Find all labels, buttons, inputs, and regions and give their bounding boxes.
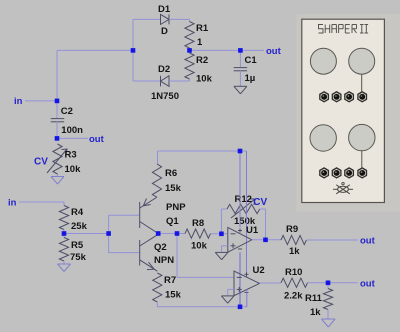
label 2.2k (284, 291, 303, 302)
resistor R3 (variable) (53, 144, 62, 176)
jack row2-3 (345, 168, 354, 178)
net label CV (R3) (34, 157, 48, 168)
knob row2 right (349, 124, 375, 150)
ground below R5 (58, 264, 71, 272)
label R5 (71, 240, 84, 251)
panel backdrop (297, 14, 400, 212)
svg-text:10k: 10k (191, 241, 208, 252)
svg-text:D: D (161, 26, 168, 37)
knob row2 left (310, 125, 336, 151)
node base rail (106, 231, 111, 236)
label 10k (R3) (65, 164, 82, 175)
svg-text:1k: 1k (310, 307, 321, 318)
wire clipper out (190, 49, 265, 51)
label U1 (246, 225, 259, 236)
label PNP (166, 202, 186, 213)
label 1k (R11) (310, 307, 321, 318)
svg-text:R11: R11 (305, 293, 323, 304)
svg-text:R9: R9 (286, 224, 298, 235)
op-amp U2 (234, 271, 260, 296)
label U2 (253, 265, 265, 276)
svg-text:C1: C1 (245, 55, 258, 66)
svg-text:10k: 10k (65, 164, 82, 175)
resistor R7 (153, 273, 162, 307)
label R8 (192, 218, 204, 229)
wire Q1 base (109, 214, 140, 216)
svg-text:R2: R2 (196, 55, 208, 66)
wire to U2 input (177, 234, 234, 278)
diode D1 (161, 14, 190, 24)
node at C2 bottom / out (55, 136, 60, 141)
label 1k (R9) (289, 246, 300, 257)
svg-text:in: in (8, 198, 17, 209)
resistor R12 (variable) (227, 204, 260, 213)
node R4/R5 junction (62, 231, 67, 236)
wire clipper left rail (133, 19, 160, 81)
wire C2 node up to clipper (57, 50, 133, 101)
svg-text:R8: R8 (192, 218, 204, 229)
jack row2-4 (358, 168, 367, 178)
ground U1 + input (215, 252, 228, 259)
svg-text:R4: R4 (71, 207, 84, 218)
resistor R10 (281, 278, 308, 287)
knob row1 right (349, 48, 375, 74)
ground below C1 (234, 86, 247, 94)
net label CV (R12) (253, 197, 267, 208)
resistor R2 (185, 50, 194, 81)
node clipper left (131, 48, 136, 53)
svg-text:out: out (360, 236, 376, 247)
label R1 (196, 23, 209, 34)
jack row2-1 (320, 168, 329, 178)
label 25k (71, 221, 88, 232)
svg-text:1µ: 1µ (245, 73, 256, 84)
node U1 inverting input (219, 232, 224, 237)
panel logo (333, 182, 353, 193)
svg-text:U1: U1 (246, 225, 259, 236)
R3 wiper arrow (47, 149, 67, 173)
wire R8 to U1 (211, 233, 228, 235)
svg-text:R3: R3 (65, 150, 77, 161)
wire U2 + input to ground (228, 289, 234, 295)
wire collectors to R8 (158, 233, 185, 235)
label 150k (234, 216, 256, 227)
svg-text:CV: CV (34, 157, 48, 168)
ground U2 + input (221, 296, 234, 303)
label 15k (R6) (165, 183, 182, 194)
label NPN (154, 255, 174, 266)
node R1/R2 junction (187, 48, 192, 53)
label 1N750 (151, 91, 179, 102)
op-amp U1 (228, 227, 252, 252)
wire bottom rail (157, 306, 247, 308)
wire in to C2 node (25, 100, 57, 102)
node R10/R11 junction (326, 281, 331, 286)
net label in (top input) (14, 96, 23, 107)
label 15k (R7) (165, 290, 182, 301)
resistor R9 (281, 235, 306, 244)
wire D2 branch (133, 80, 161, 82)
wire U2 output (260, 282, 282, 284)
wire knob1 to jack (361, 74, 363, 92)
ground below R3 (51, 177, 64, 185)
node at in/C2 junction (55, 99, 60, 104)
jack row1-4 (358, 92, 367, 102)
svg-text:out: out (89, 134, 105, 145)
transistor Q2 (NPN) (140, 234, 159, 271)
svg-text:in: in (14, 96, 23, 107)
label D2 (158, 64, 170, 75)
svg-text:25k: 25k (71, 221, 88, 232)
svg-text:out: out (266, 46, 282, 57)
label R7 (164, 275, 176, 286)
jack row1-2 (332, 92, 341, 102)
svg-text:75k: 75k (70, 252, 87, 263)
wire U2 V+ supply (246, 151, 248, 277)
svg-text:1k: 1k (289, 246, 300, 257)
label R3 (65, 150, 77, 161)
label R12 (235, 194, 252, 205)
node at C1 top (238, 48, 243, 53)
jack row1-1 (320, 92, 329, 102)
svg-text:R7: R7 (164, 275, 176, 286)
net label out (R10) (360, 278, 376, 289)
label R4 (71, 207, 84, 218)
diode D2 (zener 1N750) (161, 76, 190, 87)
capacitor C1 (234, 50, 247, 86)
svg-text:CV: CV (253, 197, 267, 208)
svg-text:out: out (360, 278, 376, 289)
label C1 (245, 55, 258, 66)
svg-text:D1: D1 (158, 4, 171, 15)
jack row2-2 (332, 168, 341, 178)
node to U2 branch (175, 231, 180, 236)
R12 wiper arrow (231, 199, 255, 218)
wire U1 V+ supply (239, 151, 241, 227)
wire feedback right (260, 209, 266, 240)
node bottom rail (238, 305, 243, 310)
resistor R5 (59, 234, 68, 264)
svg-text:15k: 15k (165, 183, 182, 194)
label R6 (165, 168, 177, 179)
net label out (after C2) (89, 134, 105, 145)
label 1µ (245, 73, 256, 84)
label Q1 (166, 216, 179, 227)
label 75k (70, 252, 87, 263)
svg-text:15k: 15k (165, 290, 182, 301)
label 10k (R8) (191, 241, 208, 252)
node top rail (238, 149, 243, 154)
ground below R11 (322, 319, 336, 327)
wire base rail vertical (108, 215, 110, 252)
node collectors (156, 231, 161, 236)
net label out (top) (266, 46, 282, 57)
knob row1 left (310, 48, 336, 74)
label Q2 (154, 242, 167, 253)
wire R9 to out (306, 239, 358, 241)
panel SHAPER II faceplate (302, 19, 385, 202)
svg-text:U2: U2 (253, 265, 265, 276)
resistor R4 (59, 202, 68, 234)
transistor Q1 (PNP) (140, 198, 159, 234)
wire U1 + input to ground (222, 246, 228, 252)
label C2 (61, 106, 73, 117)
wire to out label (57, 137, 88, 139)
wire U2 V- supply (246, 290, 248, 307)
wire knob2 to jack (361, 151, 363, 168)
label R11 (305, 293, 323, 304)
label R9 (286, 224, 298, 235)
label 10k (R2) (196, 74, 213, 85)
jack row1-3 (345, 92, 354, 102)
wire feedback left (221, 209, 227, 234)
svg-text:D2: D2 (158, 64, 170, 75)
wire R10 to out (308, 282, 359, 284)
label D (D1 value) (161, 26, 168, 37)
wire base input (64, 233, 109, 235)
resistor R11 (323, 283, 332, 319)
wire U1 output (252, 239, 281, 241)
svg-text:NPN: NPN (154, 255, 174, 266)
label 100n (61, 125, 83, 136)
svg-text:R1: R1 (196, 23, 209, 34)
svg-text:1N750: 1N750 (151, 91, 179, 102)
svg-text:C2: C2 (61, 106, 73, 117)
wire in2 to R4 (19, 201, 64, 203)
svg-text:2.2k: 2.2k (284, 291, 303, 302)
capacitor C2 (51, 101, 64, 138)
svg-text:1: 1 (197, 37, 203, 48)
panel title SHAPER II (319, 25, 369, 34)
resistor R1 (185, 19, 194, 50)
node U1 output (263, 238, 268, 243)
svg-text:10k: 10k (196, 74, 213, 85)
resistor R6 (152, 164, 161, 197)
wire top rail (158, 151, 247, 164)
label R2 (196, 55, 208, 66)
resistor R8 (185, 229, 211, 238)
svg-text:100n: 100n (61, 125, 83, 136)
label D1 (158, 4, 171, 15)
net label in (second input) (8, 198, 17, 209)
svg-text:Q2: Q2 (154, 242, 167, 253)
net label out (R9) (360, 236, 376, 247)
svg-text:R5: R5 (71, 240, 84, 251)
wire Q2 base (109, 252, 140, 254)
svg-text:PNP: PNP (166, 202, 186, 213)
label 1 (R1 value) (197, 37, 203, 48)
label R10 (285, 267, 302, 278)
svg-text:Q1: Q1 (166, 216, 179, 227)
svg-text:R6: R6 (165, 168, 177, 179)
wire U1 V- supply (239, 252, 241, 307)
svg-text:R10: R10 (285, 267, 302, 278)
svg-text:R12: R12 (235, 194, 252, 205)
